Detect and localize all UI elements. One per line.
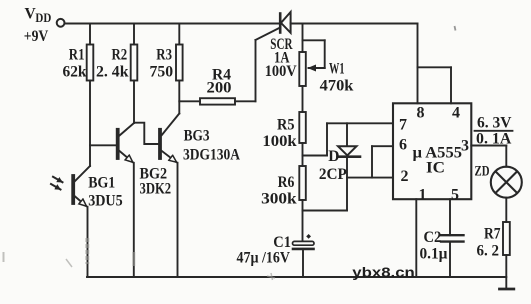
wire R4 left lead bbox=[179, 100, 200, 102]
diode D anode lead bbox=[346, 123, 348, 146]
ground bbox=[500, 288, 514, 291]
svg-text:IC: IC bbox=[426, 160, 445, 177]
svg-text:100k: 100k bbox=[262, 133, 297, 150]
wire R4 right lead to SCR gate riser bbox=[235, 100, 256, 102]
wire W1 top stub bbox=[302, 24, 304, 53]
transistor Q2 BG2 bbox=[118, 123, 134, 162]
wire C1 bottom to rail bbox=[302, 249, 304, 277]
thyristor SCR bbox=[280, 12, 290, 33]
lamp ZD bbox=[491, 167, 522, 198]
wire pin3 to lamp bbox=[505, 146, 507, 167]
wire BG3 emitter to rail bbox=[177, 163, 179, 277]
svg-text:300k: 300k bbox=[261, 191, 297, 208]
wire scan mark left margin bbox=[3, 252, 5, 262]
wire pin 3 bbox=[471, 145, 506, 147]
svg-text:7: 7 bbox=[399, 116, 407, 133]
svg-text:750: 750 bbox=[150, 64, 174, 81]
wire BG2 emitter to rail bbox=[133, 163, 135, 277]
svg-text:BG1: BG1 bbox=[88, 175, 115, 192]
capacitor C2 bbox=[441, 235, 464, 241]
wire R2 bottom to BG2 collector node bbox=[133, 81, 135, 124]
resistor R4 bbox=[200, 98, 235, 104]
svg-text:200: 200 bbox=[207, 79, 232, 96]
svg-text:8: 8 bbox=[417, 104, 425, 121]
svg-text:2. 4k: 2. 4k bbox=[96, 64, 129, 81]
wire pin 1 to rail bbox=[415, 199, 417, 277]
wire BG1 emitter to rail bbox=[87, 207, 89, 277]
svg-text:1: 1 bbox=[419, 186, 427, 203]
wire junction link to pin7 riser bbox=[303, 155, 328, 157]
resistor R7 bbox=[503, 222, 510, 255]
svg-text:6. 2: 6. 2 bbox=[477, 243, 500, 260]
wire pin 2 bbox=[347, 177, 393, 179]
svg-text:6. 3V: 6. 3V bbox=[477, 114, 512, 131]
svg-text:R7: R7 bbox=[484, 226, 501, 243]
svg-text:0.1µ: 0.1µ bbox=[420, 246, 448, 263]
wire R5 bottom to junction bbox=[302, 143, 304, 166]
svg-text:6: 6 bbox=[399, 137, 407, 154]
svg-text:5: 5 bbox=[451, 186, 459, 203]
wire diode cathode lead down bbox=[346, 157, 348, 211]
wire scan mark bottom left bbox=[66, 259, 72, 267]
wire top rail right (SCR to IC feed corner) bbox=[291, 23, 418, 25]
resistor R1 bbox=[87, 45, 94, 81]
transistor Q3 BG3 bbox=[160, 114, 179, 163]
resistor R5 bbox=[299, 112, 306, 143]
resistor R2 bbox=[131, 45, 138, 81]
wire pin 6 bbox=[372, 145, 393, 147]
wire scan smudge on BG1 emitter bbox=[85, 238, 89, 264]
wire top rail left (VDD to SCR) bbox=[65, 23, 279, 25]
wire underline 6.3V bbox=[475, 130, 513, 132]
wire R6 bottom to C1 bbox=[302, 200, 304, 241]
wire scan smudge on BG2 emitter bbox=[132, 252, 135, 266]
wire R1 bottom to BG1 collector bbox=[89, 81, 91, 167]
wire pin6 to pin2 link bbox=[371, 146, 373, 177]
svg-text:3: 3 bbox=[461, 138, 469, 155]
svg-text:D: D bbox=[328, 148, 339, 165]
svg-text:2: 2 bbox=[401, 168, 409, 185]
wire R3 bottom to BG3 collector bbox=[178, 81, 180, 114]
svg-text:DD: DD bbox=[35, 11, 51, 25]
svg-text:R5: R5 bbox=[277, 117, 295, 134]
op-amp U1 timer IC box bbox=[393, 103, 471, 199]
svg-text:R1: R1 bbox=[69, 47, 85, 64]
svg-text:47µ /16V: 47µ /16V bbox=[237, 250, 291, 267]
wire scan mark on rail bbox=[267, 273, 275, 280]
svg-text:C2: C2 bbox=[424, 229, 442, 246]
wire C2 to rail bbox=[449, 242, 451, 277]
svg-text:3DU5: 3DU5 bbox=[88, 193, 123, 210]
wire R2 top stub bbox=[133, 24, 135, 45]
wire pin7 riser bbox=[326, 123, 328, 155]
wire R6 bottom link to diode cathode bbox=[303, 210, 348, 212]
svg-text:3DG130A: 3DG130A bbox=[183, 147, 241, 164]
svg-text:2CP: 2CP bbox=[319, 166, 348, 183]
wire pin 4 branch bbox=[418, 66, 452, 68]
wire SCR gate riser bbox=[255, 40, 257, 101]
wire SCR gate diagonal bbox=[256, 28, 280, 40]
wire pin 4 drop bbox=[450, 67, 452, 103]
svg-text:+9V: +9V bbox=[24, 28, 49, 45]
svg-text:470k: 470k bbox=[320, 78, 354, 95]
resistor R3 bbox=[176, 45, 183, 81]
wire bottom rail bbox=[87, 276, 506, 278]
svg-text:ZD: ZD bbox=[475, 164, 490, 180]
wire pin 7 bbox=[327, 122, 393, 124]
node VDD supply terminal bbox=[57, 19, 65, 27]
potentiometer W1 bbox=[299, 40, 324, 86]
wire BG2 collector to BG3 base step bbox=[134, 123, 158, 144]
svg-text:4: 4 bbox=[452, 104, 460, 121]
svg-text:W1: W1 bbox=[329, 61, 345, 78]
svg-text:R6: R6 bbox=[278, 174, 295, 191]
transistor Q1 BG1 phototransistor bbox=[51, 166, 90, 206]
svg-text:ybx8.cn: ybx8.cn bbox=[352, 264, 415, 280]
wire W1 to R5 bbox=[302, 86, 304, 112]
wire R1 top stub bbox=[89, 24, 91, 45]
wire pin 5 to C2 bbox=[449, 199, 451, 235]
svg-text:R2: R2 bbox=[112, 47, 128, 64]
wire lamp to R7 bbox=[505, 198, 507, 222]
wire R7 to ground bbox=[505, 255, 507, 289]
svg-text:100V: 100V bbox=[265, 63, 298, 80]
wire BG2 base bbox=[90, 144, 116, 146]
svg-text:62k: 62k bbox=[63, 64, 87, 81]
wire scan mark top right bbox=[455, 26, 456, 31]
svg-text:3DK2: 3DK2 bbox=[140, 181, 172, 198]
wire pin 8 riser bbox=[417, 24, 419, 104]
svg-text:0. 1A: 0. 1A bbox=[476, 131, 512, 148]
svg-text:R3: R3 bbox=[156, 47, 172, 64]
svg-text:BG3: BG3 bbox=[184, 127, 210, 144]
wire R3 top stub bbox=[178, 24, 180, 45]
resistor R6 bbox=[299, 166, 306, 200]
svg-text:C1: C1 bbox=[273, 234, 291, 251]
diode D bbox=[338, 146, 361, 157]
capacitor C1 bbox=[293, 234, 315, 249]
